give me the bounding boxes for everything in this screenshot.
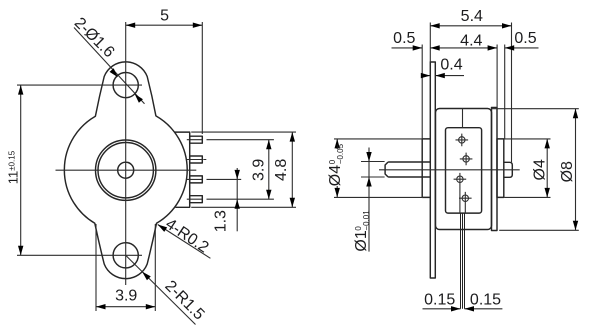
svg-text:0.15: 0.15 bbox=[470, 292, 501, 309]
svg-text:3.9: 3.9 bbox=[251, 159, 268, 181]
svg-text:Ø8: Ø8 bbox=[559, 161, 576, 182]
svg-text:0.5: 0.5 bbox=[393, 30, 415, 47]
svg-text:4.4: 4.4 bbox=[460, 32, 482, 49]
svg-text:Ø4: Ø4 bbox=[327, 165, 344, 186]
svg-text:0.4: 0.4 bbox=[440, 56, 462, 73]
svg-text:−0.01: −0.01 bbox=[362, 210, 371, 231]
svg-text:−0.05: −0.05 bbox=[336, 143, 345, 164]
svg-text:1.3: 1.3 bbox=[213, 210, 230, 232]
svg-text:3.9: 3.9 bbox=[115, 288, 137, 305]
svg-text:5.4: 5.4 bbox=[461, 8, 483, 25]
svg-text:0.5: 0.5 bbox=[514, 30, 536, 47]
svg-text:Ø4: Ø4 bbox=[531, 159, 548, 180]
svg-text:4.8: 4.8 bbox=[273, 159, 290, 181]
svg-text:0.15: 0.15 bbox=[424, 292, 455, 309]
svg-text:Ø1: Ø1 bbox=[353, 230, 370, 251]
svg-text:5: 5 bbox=[160, 7, 169, 24]
